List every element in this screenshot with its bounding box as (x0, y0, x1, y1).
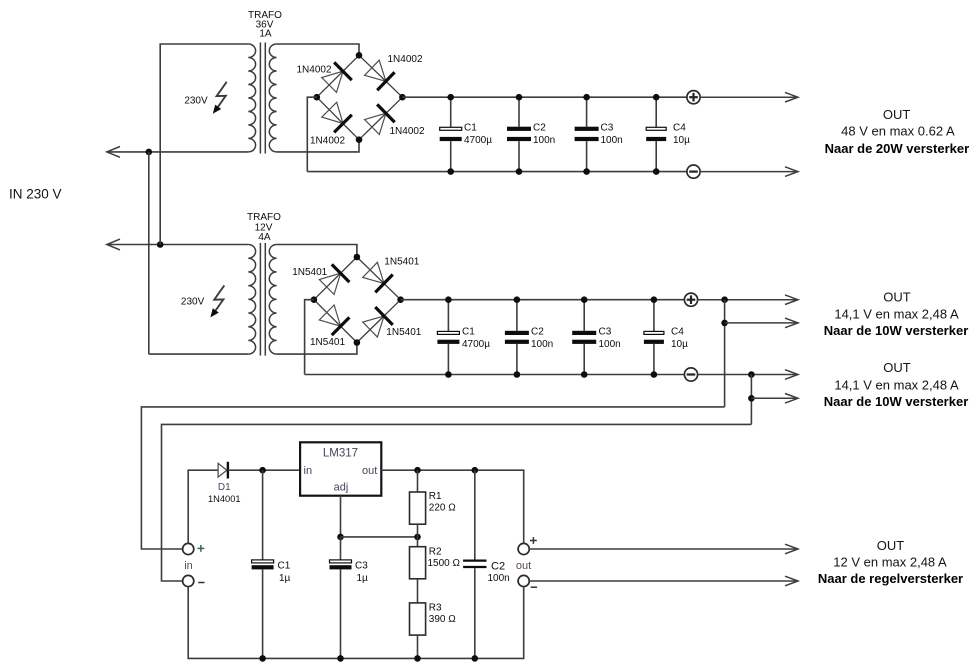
label T1 TRAFO 36V 1A (248, 10, 282, 40)
svg-text:220 Ω: 220 Ω (429, 502, 456, 513)
wire DC+ rail supply2 (401, 299, 685, 301)
svg-text:100n: 100n (488, 573, 510, 584)
arrow output + supply2 line2 (785, 318, 798, 328)
junction C3 top supply1 (583, 94, 590, 101)
svg-text:out: out (516, 560, 531, 572)
node bridge1 bottom (356, 136, 363, 143)
label in (regulator) (184, 560, 193, 572)
junction C2 top supply1 (516, 94, 523, 101)
junction supply2 - arrow2 (748, 395, 755, 402)
node bridge1 top (356, 52, 363, 59)
junction D1/C1 node (259, 467, 266, 474)
svg-text:1N4002: 1N4002 (297, 65, 332, 76)
svg-text:C2: C2 (531, 326, 544, 337)
svg-text:230V: 230V (184, 96, 208, 107)
junction L1 to T2 primary return (146, 149, 153, 156)
svg-text:C3: C3 (355, 561, 368, 572)
output terminal + supply1 (687, 91, 700, 104)
junction C2 top (regulator) (472, 467, 479, 474)
transformer T1 primary winding (248, 44, 255, 152)
resistor R3 390Ω (410, 603, 457, 659)
label IN 230 V (9, 187, 62, 202)
junction C3 bottom supply1 (583, 168, 590, 175)
wire T2 primary bottom (149, 353, 249, 355)
svg-text:100n: 100n (599, 339, 621, 350)
wire output - supply1 (700, 171, 798, 173)
arrow output - supply1 (785, 167, 798, 177)
node bridge2 left (311, 296, 318, 303)
arrow output + regulator (785, 544, 798, 554)
junction C1 bottom regulator (259, 655, 266, 662)
wire mains L1 / T1 primary bottom (107, 151, 249, 153)
terminal out + (regulator) (518, 537, 537, 555)
wire mains L2 / T2 primary top (107, 244, 249, 246)
svg-text:Naar de regelversterker: Naar de regelversterker (818, 571, 963, 586)
IC U1 LM317 (300, 442, 381, 495)
label T1 230V (184, 96, 208, 107)
junction adj node (337, 534, 344, 541)
capacitor C1 4700µ supply2 (437, 300, 490, 375)
svg-text:1N5401: 1N5401 (310, 337, 345, 348)
junction C3 bottom supply2 (581, 371, 588, 378)
arrow output + supply1 (785, 92, 798, 102)
bridge 1 diamond edges (317, 55, 403, 139)
svg-text:1N4002: 1N4002 (388, 54, 423, 65)
svg-text:1µ: 1µ (279, 573, 291, 584)
junction C4 bottom supply1 (653, 168, 660, 175)
svg-text:OUT: OUT (883, 290, 911, 305)
wire ground rail regulator (188, 587, 524, 659)
svg-text:OUT: OUT (883, 107, 911, 122)
svg-text:100n: 100n (533, 135, 555, 146)
svg-text:100n: 100n (601, 135, 623, 146)
capacitor C3 100n supply1 (575, 97, 623, 171)
wire output + supply1 (700, 96, 798, 98)
diode D1 1N4001 (208, 462, 241, 504)
wire output - supply2 to junction (697, 374, 798, 376)
svg-text:C3: C3 (599, 326, 612, 337)
wire T1 secondary top to bridge (277, 44, 359, 55)
arrow output + supply2 line1 (785, 295, 798, 305)
terminal out - (regulator) (518, 575, 537, 587)
output terminal - supply2 (684, 368, 697, 381)
capacitor C3 100n supply2 (572, 300, 621, 375)
junction C1 top supply1 (447, 94, 454, 101)
junction C4 top supply1 (653, 94, 660, 101)
svg-text:C3: C3 (601, 122, 614, 133)
output terminal + supply2 (684, 293, 697, 306)
svg-text:LM317: LM317 (323, 448, 358, 460)
transformer T1 core (260, 43, 265, 154)
junction C1 bottom supply2 (445, 371, 452, 378)
svg-text:1N5401: 1N5401 (384, 257, 419, 268)
svg-text:230V: 230V (181, 296, 205, 307)
capacitor C1 4700µ supply1 (440, 97, 493, 171)
junction L2 to T1 primary feed (157, 241, 164, 248)
wire T2 secondary bottom to bridge (277, 343, 357, 355)
diode 1N5401 bridge2 bottom-right (363, 307, 422, 338)
transformer T1 secondary winding (269, 44, 276, 152)
wire supply2 - line2 (751, 397, 798, 399)
node bridge2 top (354, 254, 361, 261)
svg-text:4700µ: 4700µ (462, 339, 490, 350)
label out (regulator) (516, 560, 531, 572)
node bridge2 right (397, 296, 404, 303)
wire bridge1 DC- drop (307, 97, 317, 171)
junction R1 top (414, 467, 421, 474)
wire regulator - feed (162, 424, 752, 581)
wire in+ to D1 (188, 470, 218, 543)
svg-text:in: in (304, 465, 313, 477)
svg-text:R1: R1 (429, 491, 442, 502)
transformer T2 secondary winding (269, 245, 276, 355)
wire D1 to LM317 in (228, 469, 300, 471)
wire adj to divider (341, 536, 418, 538)
resistor R2 1500Ω (410, 537, 461, 603)
svg-text:1A: 1A (259, 29, 272, 40)
svg-text:1N5401: 1N5401 (292, 267, 327, 278)
svg-text:R2: R2 (429, 547, 442, 558)
junction C3 top supply2 (581, 296, 588, 303)
diode 1N5401 bridge2 top-right (363, 257, 420, 293)
output terminal - supply1 (687, 165, 700, 178)
svg-text:4700µ: 4700µ (464, 135, 492, 146)
junction R3 bottom (414, 655, 421, 662)
wire supply2 + branch vertical (724, 300, 726, 407)
svg-text:4A: 4A (258, 232, 271, 243)
wire DC+ rail supply1 (402, 96, 687, 98)
svg-text:OUT: OUT (883, 360, 911, 375)
svg-text:R3: R3 (429, 603, 442, 614)
capacitor C2 100n regulator (463, 470, 510, 658)
capacitor C2 100n supply1 (507, 97, 555, 171)
arrow mains input L1 (left) (107, 147, 120, 158)
svg-text:12 V en max 2,48 A: 12 V en max 2,48 A (833, 555, 947, 570)
junction C2 bottom regulator (472, 655, 479, 662)
svg-text:1N4002: 1N4002 (390, 126, 425, 137)
label T2 230V (181, 296, 205, 307)
junction C2 bottom supply1 (516, 168, 523, 175)
wire LM317 out rail (381, 470, 523, 542)
svg-text:IN 230 V: IN 230 V (9, 187, 62, 202)
svg-text:C2: C2 (491, 561, 505, 573)
resistor R1 220Ω (410, 470, 457, 537)
svg-text:10µ: 10µ (671, 339, 688, 350)
diode 1N4002 bridge1 bottom-right (365, 104, 425, 137)
svg-text:1N4001: 1N4001 (208, 494, 241, 504)
mains symbol T1 lightning bolt (213, 82, 227, 114)
svg-text:C1: C1 (278, 561, 291, 572)
junction C4 bottom supply2 (651, 371, 658, 378)
diode 1N4002 bridge1 top-left (297, 62, 352, 92)
wire LM317 adj (340, 496, 342, 537)
svg-text:in: in (184, 560, 193, 572)
junction supply2 + branch (721, 296, 728, 303)
capacitor C4 10µ supply2 (644, 300, 688, 375)
svg-text:14,1 V en max 2,48 A: 14,1 V en max 2,48 A (834, 378, 959, 393)
label output regulator (818, 538, 963, 586)
wire T2 secondary top to bridge (277, 245, 357, 258)
svg-text:C4: C4 (673, 122, 686, 133)
junction C1 bottom supply1 (447, 168, 454, 175)
node bridge1 right (399, 94, 406, 101)
capacitor C2 100n supply2 (505, 300, 553, 375)
transformer T2 core (260, 243, 265, 356)
junction C3 bottom regulator (337, 655, 344, 662)
terminal in + (regulator) (183, 543, 205, 554)
wire output - regulator (529, 580, 798, 582)
junction C1 top supply2 (445, 296, 452, 303)
svg-text:14,1 V en max 2,48 A: 14,1 V en max 2,48 A (834, 307, 959, 322)
label output supply2 lower (824, 360, 969, 409)
svg-text:D1: D1 (218, 482, 231, 493)
svg-text:C4: C4 (671, 326, 684, 337)
junction supply2 + arrow2 (721, 320, 728, 327)
wire output + regulator (529, 548, 798, 550)
label output supply1 (825, 107, 970, 156)
svg-text:390 Ω: 390 Ω (429, 614, 456, 625)
wire supply2 + line2 (725, 322, 798, 324)
transformer T2 primary winding (248, 245, 255, 355)
svg-text:Naar de 10W versterker: Naar de 10W versterker (824, 323, 969, 338)
svg-text:100n: 100n (531, 339, 553, 350)
wire supply2 - branch vertical (750, 375, 752, 425)
terminal in - (regulator) (183, 575, 205, 586)
label T2 TRAFO 12V 4A (247, 212, 281, 243)
wire T2 primary return (vertical) (148, 152, 150, 354)
svg-text:48 V en max 0.62 A: 48 V en max 0.62 A (841, 123, 955, 138)
bridge 2 diamond edges (314, 257, 401, 343)
label output supply2 upper (824, 290, 969, 339)
junction C4 top supply2 (651, 296, 658, 303)
svg-text:C1: C1 (464, 122, 477, 133)
wire regulator + feed (141, 407, 724, 549)
diode 1N4002 bridge1 bottom-left (310, 102, 352, 146)
node bridge1 left (314, 94, 321, 101)
wire DC- rail supply1 (307, 171, 687, 173)
wire output + supply2 to junction (697, 299, 798, 301)
svg-text:10µ: 10µ (673, 135, 690, 146)
arrow output - regulator (785, 576, 798, 586)
svg-text:C2: C2 (533, 122, 546, 133)
capacitor C1 1µ regulator (252, 470, 291, 658)
svg-text:OUT: OUT (877, 538, 905, 553)
wire T1 secondary bottom to bridge (277, 140, 359, 152)
svg-text:C1: C1 (462, 326, 475, 337)
wire T1 primary feed (vertical + top) (160, 44, 248, 245)
arrow output - supply2 line2 (785, 394, 798, 404)
junction R1/R2 node (414, 534, 421, 541)
svg-text:1500 Ω: 1500 Ω (428, 558, 461, 569)
wire DC- rail supply2 (305, 374, 685, 376)
svg-text:adj: adj (334, 481, 349, 493)
wire bridge2 DC- drop (305, 300, 314, 375)
svg-text:1N4002: 1N4002 (310, 136, 345, 147)
junction C2 top supply2 (514, 296, 521, 303)
junction supply2 - branch (748, 371, 755, 378)
arrow mains input L2 (left) (107, 239, 120, 250)
diode 1N4002 bridge1 top-right (365, 54, 423, 90)
svg-text:1N5401: 1N5401 (386, 327, 421, 338)
capacitor C3 1µ regulator (330, 537, 369, 659)
diode 1N5401 bridge2 top-left (292, 264, 349, 294)
svg-text:Naar de 10W versterker: Naar de 10W versterker (824, 394, 969, 409)
capacitor C4 10µ supply1 (646, 97, 690, 171)
diode 1N5401 bridge2 bottom-left (310, 305, 349, 348)
junction C2 bottom supply2 (514, 371, 521, 378)
svg-text:1µ: 1µ (357, 573, 369, 584)
mains symbol T2 lightning bolt (210, 285, 224, 317)
svg-text:Naar de 20W versterker: Naar de 20W versterker (825, 141, 970, 156)
svg-text:out: out (362, 465, 377, 477)
node bridge2 bottom (354, 339, 361, 346)
arrow output - supply2 line1 (785, 370, 798, 380)
